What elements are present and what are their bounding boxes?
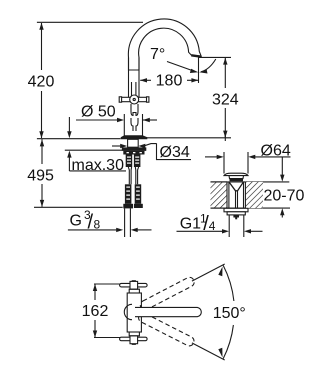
counter hatch left: [211, 182, 228, 208]
svg-text:Ø 50: Ø 50: [81, 104, 116, 121]
dimension 495 bottom arrow: [40, 200, 44, 207]
dimension 162 bottom arrow: [93, 331, 97, 338]
dimension 324 top arrow: [223, 58, 227, 65]
escutcheon base flare: [121, 135, 148, 139]
top-view handle top bar: [120, 283, 148, 287]
top extension line (spout height reference): [37, 21, 143, 23]
dimension O34 left arrow: [112, 145, 121, 147]
pipe inner lines: [131, 82, 133, 96]
escutcheon cylinder right side / extension line: [142, 114, 144, 136]
drain tailpiece: [228, 215, 230, 237]
svg-text:150°: 150°: [213, 305, 246, 322]
top-view handle top block: [130, 281, 138, 289]
drain washer: [227, 212, 245, 215]
handle right end cap: [147, 97, 149, 102]
threaded stud right: [134, 155, 141, 168]
dimension 420 line: [41, 23, 43, 70]
drain funnel: [229, 182, 243, 191]
connection rod right: [135, 167, 138, 184]
drain stub: [233, 215, 239, 218]
swivel arc bottom arrowhead: [218, 348, 222, 358]
svg-text:180: 180: [156, 72, 183, 89]
dome cap ring: [230, 179, 244, 182]
svg-text:G: G: [70, 212, 82, 229]
svg-text:495: 495: [27, 167, 54, 184]
dimension 420 top arrow: [39, 23, 43, 30]
supply tube right: [135, 184, 142, 204]
dimension 162 line: [94, 284, 96, 300]
solid spout bar (top view): [135, 307, 201, 316]
spout pipe: [128, 58, 130, 98]
swivel arc top arrowhead: [218, 267, 222, 277]
7 degree leader arrowhead: [190, 69, 198, 73]
handle center knob: [130, 95, 139, 104]
swivel 150 arc: [223, 265, 234, 301]
dimension 20-70 top arrow: [281, 157, 283, 175]
svg-text:8: 8: [94, 218, 101, 232]
O50 right arrowhead: [143, 118, 150, 122]
O34 label bracket: [157, 143, 192, 159]
dimension 495 line: [41, 139, 43, 164]
dimension G1 1/4 leader + left arrow: [177, 230, 223, 232]
dimension 324 line: [224, 58, 226, 88]
drain body wall left: [226, 182, 228, 208]
7 degree leader from label: [167, 62, 193, 71]
top-view handle bottom bar: [120, 337, 148, 341]
O50 left arrowhead: [117, 118, 124, 122]
flexible hose left: [124, 208, 126, 237]
top-view body: [127, 293, 141, 332]
dimension 324 bottom arrow: [223, 131, 227, 138]
7 degree arc: [201, 59, 216, 72]
dimension O64 left arrow: [205, 156, 218, 158]
dimension 420 bottom arrow: [39, 131, 43, 138]
dashed spout position lower: [137, 311, 196, 347]
spout gooseneck arc: [128, 19, 201, 70]
tube collar left: [123, 204, 133, 209]
tube collar right: [134, 204, 143, 208]
svg-text:Ø64: Ø64: [261, 142, 291, 159]
dimension 180 right arrow: [191, 78, 198, 82]
max.30 top arrow: [68, 117, 70, 132]
mounting flange under counter: [122, 147, 147, 150]
O50 right arrow tail: [143, 119, 157, 121]
supply tube left: [125, 184, 131, 204]
drain flange nut: [224, 208, 248, 212]
dimension 180 left arrow: [140, 78, 147, 82]
dashed spout position upper: [139, 276, 196, 312]
mounting nut: [123, 151, 144, 155]
pop-up waste dome cap: [224, 173, 248, 175]
top-view handle bottom block: [130, 336, 138, 344]
drain body wall right: [244, 182, 246, 208]
7 degree arc arrowhead: [199, 69, 207, 73]
7 degree outlet axis extension line: [198, 58, 200, 84]
svg-text:max.30: max.30: [72, 157, 125, 174]
counter mounting extension line to drain detail: [146, 137, 231, 139]
dimension 180 line: [140, 79, 151, 81]
drain inner body: [228, 182, 230, 208]
connection rod left: [128, 167, 131, 184]
svg-text:420: 420: [28, 74, 55, 91]
dimension 495 top arrow: [40, 139, 44, 146]
svg-text:Ø34: Ø34: [160, 144, 190, 161]
svg-text:G1: G1: [180, 216, 201, 233]
dimension O50 leader line: [76, 119, 117, 121]
324 top extension line: [199, 56, 231, 58]
escutcheon cylinder (O50) left side / extension line: [123, 114, 125, 136]
dimension G3/8 right arrow: [131, 228, 138, 232]
svg-text:20-70: 20-70: [264, 187, 305, 204]
O64 extension line left: [223, 152, 225, 174]
counter hatch right: [245, 182, 263, 208]
swivel pivot circle: [124, 304, 132, 319]
inner body in escutcheon: [131, 118, 138, 131]
162 bottom extension line: [94, 337, 134, 339]
drain center tube: [235, 191, 237, 208]
O64 extension line right: [247, 152, 249, 174]
threaded stud left: [126, 155, 133, 168]
svg-text:4: 4: [209, 219, 216, 233]
162 top extension line: [94, 283, 134, 285]
swivel sector upper line: [192, 264, 225, 281]
svg-text:162: 162: [82, 303, 109, 320]
counter top line: [37, 138, 121, 140]
svg-text:324: 324: [212, 92, 239, 109]
dimension 162 top arrow: [93, 284, 97, 291]
dimension O64 right arrow: [248, 155, 255, 159]
spout outlet face: [191, 55, 201, 56]
dimension G3/8 leader + left arrow: [68, 229, 117, 231]
495 bottom extension line: [34, 206, 123, 208]
dimension 20-70 bottom arrow: [280, 208, 284, 215]
dimension G1 1/4 right arrow: [244, 229, 251, 233]
max.30 bottom arrow + underline leader: [68, 158, 70, 172]
top-view neck upper: [129, 289, 139, 293]
counter underside line: [65, 149, 146, 151]
counter section bottom line: [211, 207, 291, 209]
handle stem: [131, 104, 138, 116]
dimension O34 right arrow: [138, 144, 145, 148]
counter section top line: [211, 181, 290, 183]
dome cap neck: [229, 176, 244, 179]
top-view neck lower: [129, 332, 139, 336]
cross handle bar: [120, 97, 149, 101]
svg-text:7°: 7°: [150, 46, 165, 63]
swivel sector lower line: [192, 343, 225, 360]
body through counter hole: [128, 139, 139, 147]
handle left end cap: [119, 97, 121, 102]
